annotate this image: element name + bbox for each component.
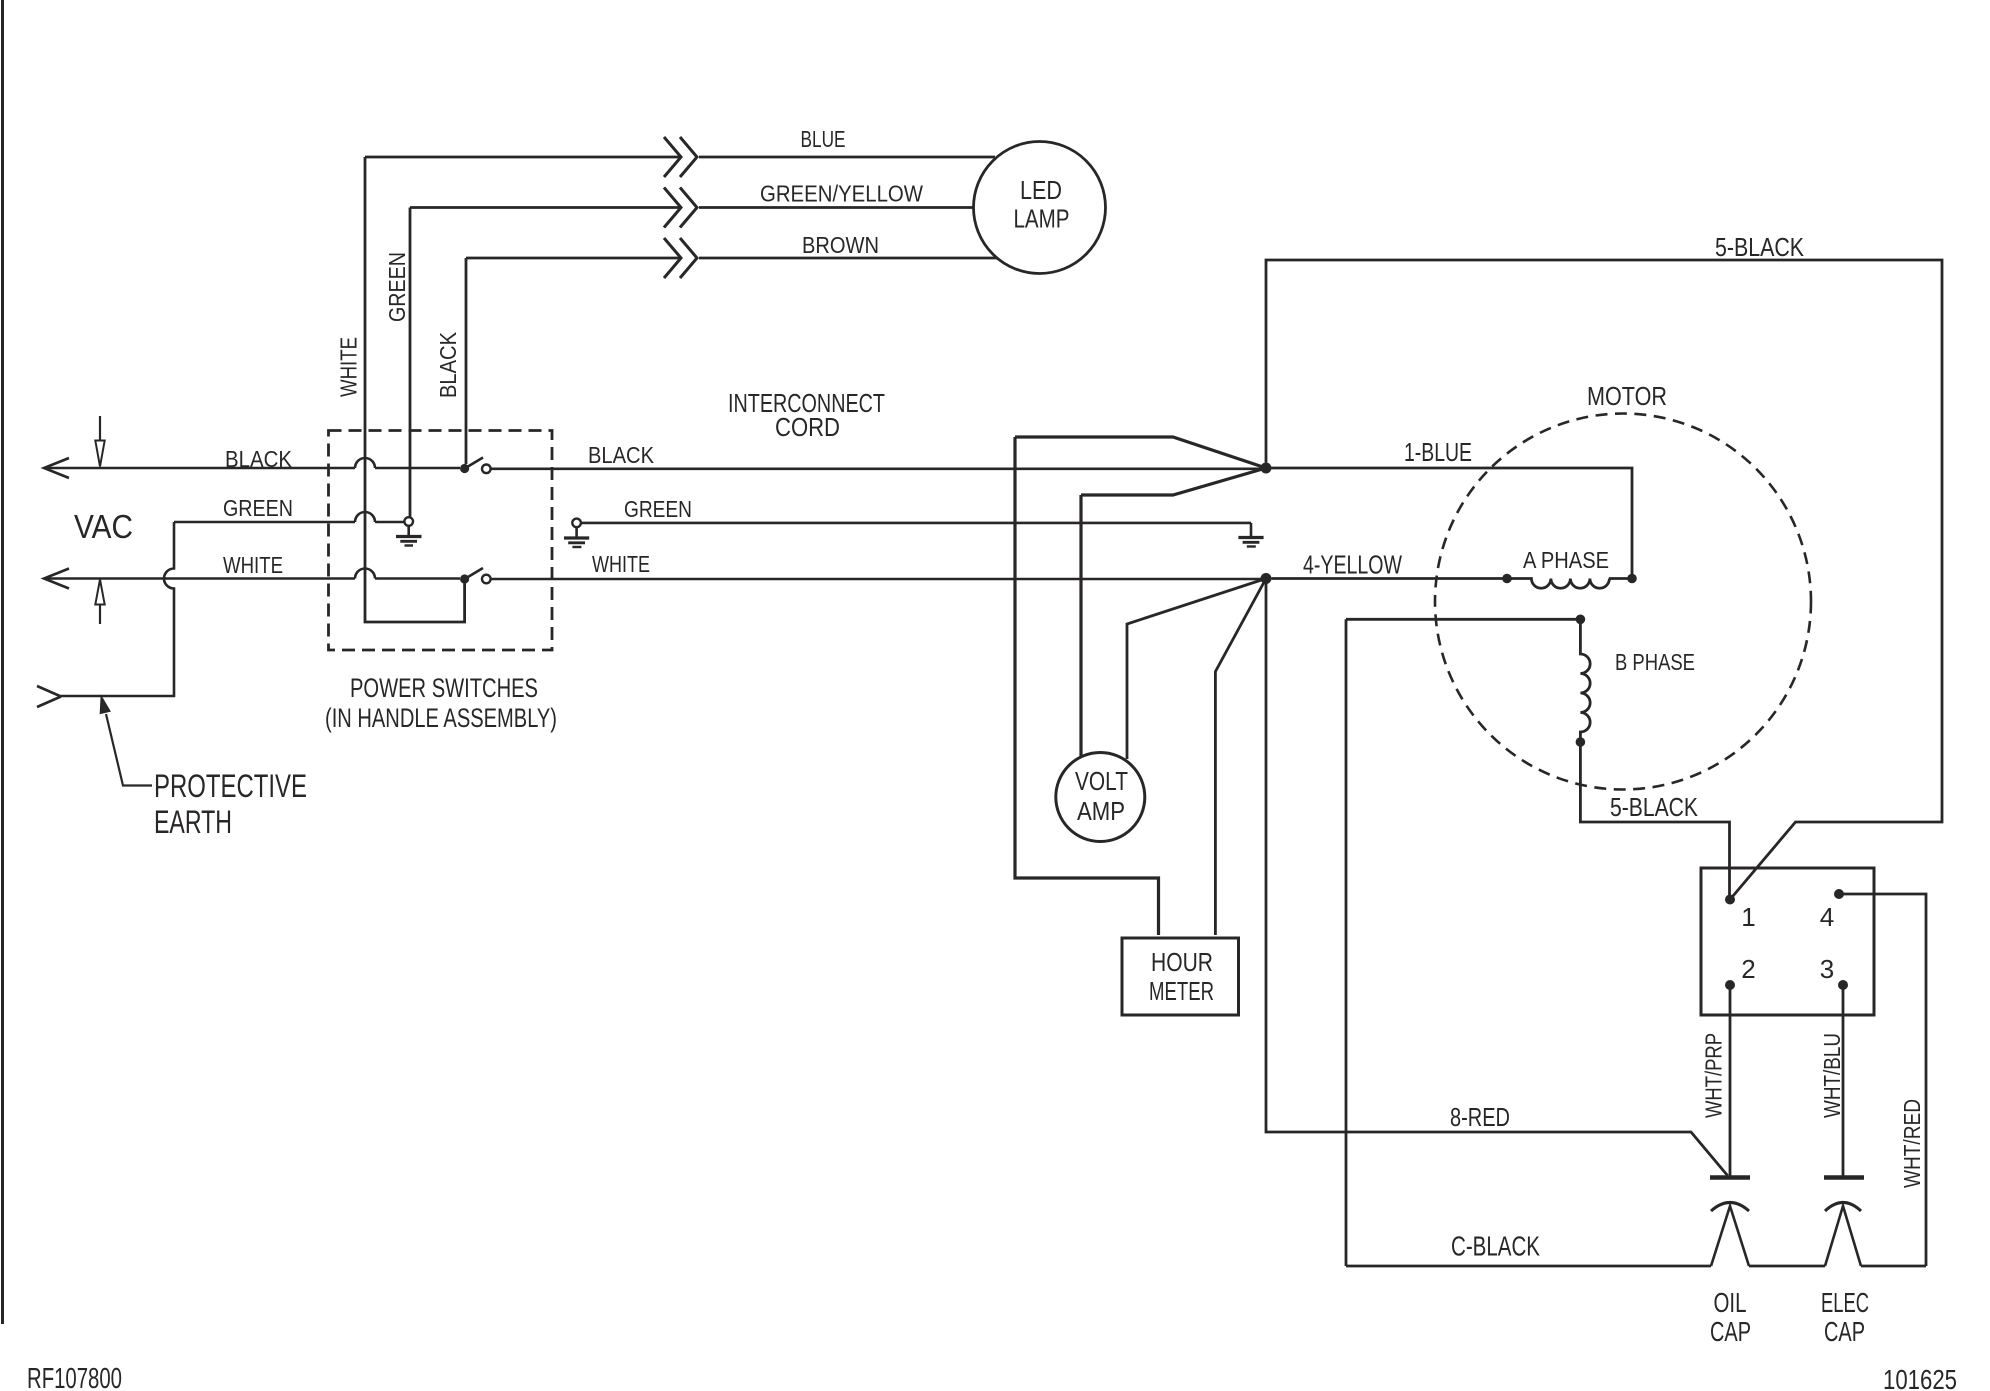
svg-text:HOUR: HOUR (1151, 947, 1213, 977)
svg-text:GREEN/YELLOW: GREEN/YELLOW (760, 181, 923, 207)
svg-text:WHT/RED: WHT/RED (1899, 1099, 1925, 1188)
svg-text:MOTOR: MOTOR (1587, 381, 1667, 411)
svg-text:5-BLACK: 5-BLACK (1610, 792, 1699, 822)
svg-text:LAMP: LAMP (1014, 204, 1070, 234)
svg-text:OIL: OIL (1714, 1287, 1747, 1318)
svg-text:GREEN: GREEN (624, 496, 692, 522)
svg-text:VOLT: VOLT (1075, 766, 1128, 796)
svg-text:BLACK: BLACK (225, 446, 293, 472)
svg-text:RF107800: RF107800 (27, 1363, 122, 1391)
svg-text:PROTECTIVE: PROTECTIVE (154, 768, 307, 804)
svg-text:A PHASE: A PHASE (1523, 547, 1609, 573)
svg-text:5-BLACK: 5-BLACK (1715, 232, 1805, 262)
svg-text:BLUE: BLUE (801, 126, 846, 152)
svg-text:B PHASE: B PHASE (1615, 649, 1695, 675)
svg-text:BLACK: BLACK (588, 442, 655, 468)
svg-text:WHT/PRP: WHT/PRP (1701, 1033, 1727, 1118)
svg-text:BROWN: BROWN (802, 232, 879, 258)
svg-text:2: 2 (1741, 954, 1755, 984)
svg-text:METER: METER (1149, 976, 1214, 1006)
svg-text:WHITE: WHITE (223, 552, 283, 578)
svg-text:POWER SWITCHES: POWER SWITCHES (350, 673, 538, 703)
svg-text:WHT/BLU: WHT/BLU (1819, 1033, 1845, 1118)
svg-text:CAP: CAP (1710, 1316, 1751, 1347)
svg-text:CAP: CAP (1824, 1316, 1865, 1347)
svg-text:EARTH: EARTH (154, 804, 232, 840)
svg-text:4-YELLOW: 4-YELLOW (1303, 550, 1402, 580)
svg-text:3: 3 (1820, 954, 1834, 984)
svg-text:AMP: AMP (1077, 796, 1125, 826)
svg-text:LED: LED (1020, 175, 1062, 205)
svg-text:BLACK: BLACK (435, 331, 461, 398)
svg-text:101625: 101625 (1883, 1364, 1957, 1391)
svg-text:(IN HANDLE ASSEMBLY): (IN HANDLE ASSEMBLY) (325, 703, 557, 733)
svg-text:ELEC: ELEC (1821, 1287, 1869, 1318)
svg-text:VAC: VAC (74, 508, 133, 545)
svg-text:WHITE: WHITE (336, 337, 362, 397)
svg-text:C-BLACK: C-BLACK (1451, 1231, 1540, 1262)
svg-text:4: 4 (1820, 902, 1834, 932)
svg-text:GREEN: GREEN (223, 495, 293, 521)
svg-text:WHITE: WHITE (592, 551, 650, 577)
svg-text:8-RED: 8-RED (1450, 1102, 1510, 1132)
svg-text:1-BLUE: 1-BLUE (1404, 437, 1472, 467)
svg-text:1: 1 (1741, 902, 1755, 932)
svg-text:GREEN: GREEN (384, 252, 410, 322)
svg-text:CORD: CORD (775, 412, 840, 442)
